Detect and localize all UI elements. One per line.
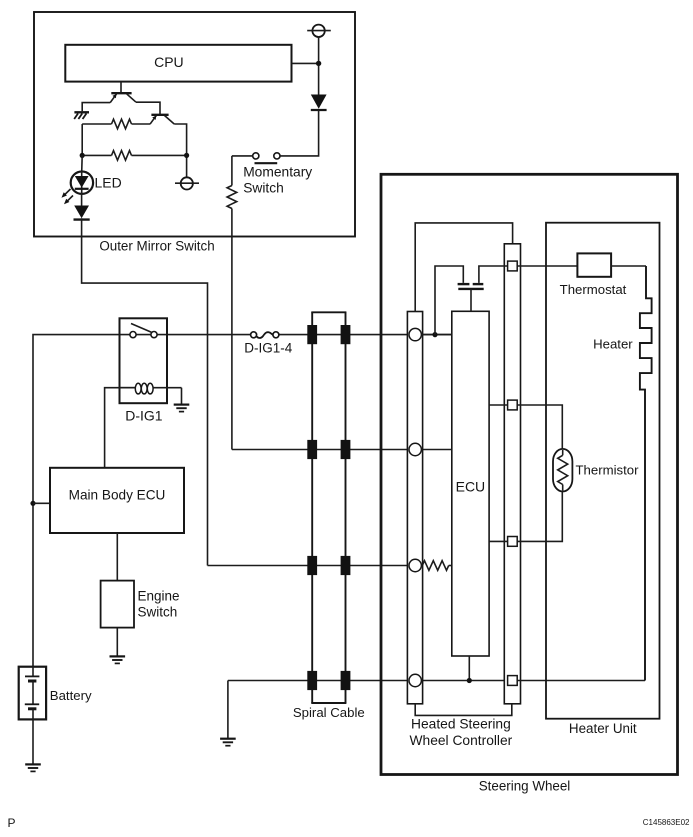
wire Q1 emitter to ground: [82, 103, 110, 112]
wire Q1 to Q2 base: [136, 102, 160, 115]
pin circle 1: [409, 328, 421, 340]
square pin 1: [508, 261, 518, 271]
wire row3: [208, 565, 423, 567]
wire ECU to Engine Switch: [116, 533, 118, 581]
spiral cable bottom bridge: [311, 702, 346, 704]
controller right connector strip: [504, 244, 520, 704]
ground row4: [220, 739, 236, 746]
svg-text:Outer Mirror Switch: Outer Mirror Switch: [99, 239, 214, 254]
wire node to Main Body ECU: [33, 502, 50, 504]
square pin 4: [508, 676, 518, 686]
momentary switch SW1: [253, 153, 259, 159]
wire row4 to ground: [227, 681, 229, 739]
relay coil: [121, 387, 136, 389]
relay D-IG1 box: [120, 318, 168, 403]
MOSFET Q3 gate wires: [435, 266, 463, 335]
wire coil to ground: [181, 388, 183, 405]
terminal T2: [181, 177, 193, 189]
controller bracket: [415, 704, 512, 716]
wire row2: [232, 449, 452, 451]
resistor R3: [227, 186, 237, 209]
heater unit box: [546, 223, 660, 719]
transistor Q2: [151, 114, 168, 116]
svg-text:Wheel Controller: Wheel Controller: [410, 733, 513, 748]
wire thermistor to square3: [517, 492, 562, 542]
ground battery: [25, 764, 41, 771]
spiral cable top bridge: [311, 311, 346, 313]
CPU U1: [65, 45, 291, 82]
node dot: [316, 61, 321, 66]
svg-text:Thermostat: Thermostat: [560, 282, 627, 297]
wire pin1 to ECU: [421, 334, 451, 336]
node dot battery branch: [30, 501, 35, 506]
svg-text:D-IG1: D-IG1: [125, 407, 163, 423]
spiral cable columns: [311, 312, 313, 703]
ground relay: [174, 405, 190, 412]
svg-text:Thermistor: Thermistor: [576, 462, 640, 477]
svg-text:C145863E02: C145863E02: [643, 818, 690, 827]
svg-text:P: P: [8, 816, 16, 830]
wire square1 to thermostat: [517, 265, 577, 267]
svg-text:Heater Unit: Heater Unit: [569, 721, 637, 736]
svg-text:LED: LED: [95, 174, 122, 190]
wire strip top loop: [415, 223, 512, 312]
wire SW1 left: [232, 155, 253, 157]
wire ECU to square2: [489, 404, 508, 406]
thermistor: [553, 449, 572, 492]
wire square2 to thermistor: [517, 405, 562, 449]
steering wheel box: [381, 174, 678, 774]
svg-text:Heated Steering: Heated Steering: [411, 716, 511, 731]
wire R1 left corner down: [81, 124, 83, 155]
wire T1 to node: [318, 37, 320, 97]
pin circle 3: [409, 559, 421, 571]
wire coil to Main Body ECU: [105, 388, 136, 468]
wire Engine Switch to ground: [116, 628, 118, 656]
Main Body ECU: [50, 468, 184, 533]
wire Q3 to ECU top: [470, 289, 472, 311]
svg-text:Heater: Heater: [593, 336, 633, 351]
wire battery to ground: [32, 719, 34, 764]
node dot right: [184, 153, 189, 158]
svg-text:Engine: Engine: [138, 589, 180, 604]
LED D1: [81, 155, 84, 172]
ground engine switch: [110, 656, 126, 663]
outer mirror switch box: [34, 12, 355, 237]
chassis ground: [74, 111, 89, 113]
wire thermostat to heater: [611, 265, 646, 267]
Engine Switch: [101, 581, 134, 628]
fuse D-IG1-4: [257, 332, 273, 338]
MOSFET Q3: [458, 283, 470, 285]
svg-text:Battery: Battery: [50, 688, 92, 703]
transistor Q1: [120, 82, 122, 94]
diode D2: [74, 206, 89, 219]
relay contact lever: [131, 324, 152, 333]
wire D2 down and over to row3 drop: [82, 218, 208, 565]
resistor R4: [422, 561, 448, 571]
pin circle 2: [409, 443, 421, 455]
square pin 3: [508, 537, 518, 547]
svg-text:D-IG1-4: D-IG1-4: [244, 341, 293, 356]
svg-text:Momentary: Momentary: [243, 164, 312, 179]
svg-text:Steering Wheel: Steering Wheel: [479, 778, 571, 793]
connector blocks: [307, 325, 317, 344]
resistor R2: [82, 154, 111, 156]
pin circle 4: [409, 674, 421, 686]
square pin 2: [508, 400, 518, 410]
wire Q2 collector down: [174, 124, 186, 177]
node dot pin1: [432, 332, 437, 337]
wire ECU to square3: [489, 540, 508, 542]
svg-text:Switch: Switch: [138, 605, 178, 620]
ECU U2: [452, 311, 489, 656]
svg-text:Switch: Switch: [243, 180, 284, 195]
controller left connector strip: [407, 312, 422, 704]
battery: [19, 667, 46, 720]
wire row4: [228, 680, 508, 682]
resistor R1: [82, 123, 111, 125]
node dot left: [80, 153, 85, 158]
wire CPU to node: [292, 62, 319, 64]
svg-text:Main Body ECU: Main Body ECU: [69, 488, 166, 503]
wire ECU bottom to row4: [468, 656, 470, 681]
wire row4 square to heater: [517, 680, 645, 682]
node dot row4: [467, 678, 472, 683]
thermostat: [577, 253, 611, 276]
relay contact circles: [130, 332, 136, 338]
LED emission arrows: [64, 189, 71, 196]
wire LED to D2: [81, 194, 83, 206]
svg-text:CPU: CPU: [154, 54, 184, 70]
diode D3: [311, 95, 327, 109]
wire R3 down to row2: [231, 209, 233, 450]
svg-text:Spiral Cable: Spiral Cable: [293, 705, 365, 720]
heater element: [640, 266, 652, 681]
wire row1 ignition feed: [33, 335, 251, 667]
svg-text:ECU: ECU: [456, 479, 486, 495]
terminal T1: [312, 25, 324, 37]
wire D3 to momentary switch: [280, 110, 319, 156]
